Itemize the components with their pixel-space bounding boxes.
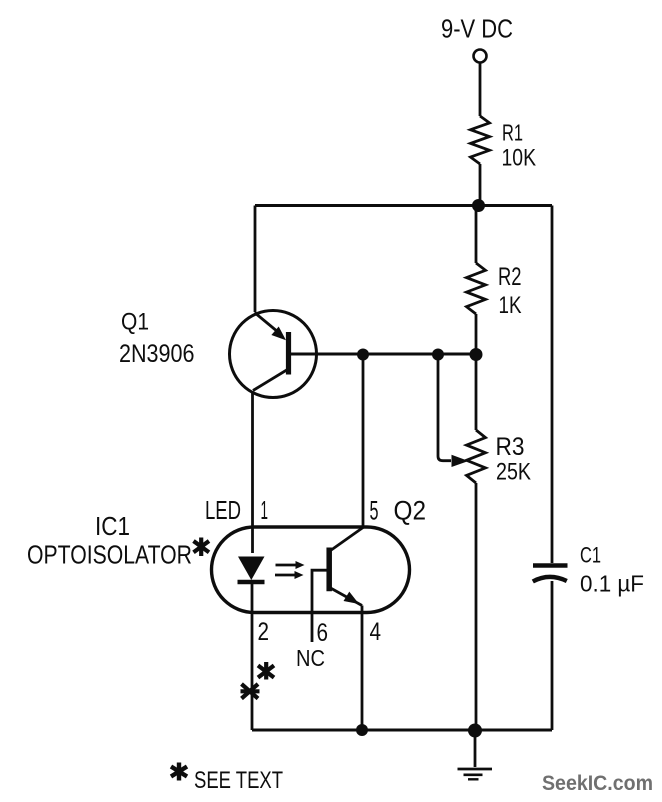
svg-text:Q2: Q2 xyxy=(394,496,427,526)
capacitor C1 xyxy=(533,566,568,731)
svg-text:SEE TEXT: SEE TEXT xyxy=(194,767,283,794)
asterisk see-text xyxy=(171,763,187,781)
svg-text:6: 6 xyxy=(317,619,329,647)
optoisolator IC1 body xyxy=(212,527,410,613)
svg-text:25K: 25K xyxy=(496,459,532,486)
svg-text:R1: R1 xyxy=(502,119,523,145)
wire Q1 base to R2/R3 node xyxy=(289,352,476,355)
wire pin5 riser xyxy=(362,354,365,527)
svg-text:1: 1 xyxy=(261,495,269,525)
wire Q1 collector to LED pin1 xyxy=(251,393,254,554)
node pin4-bottom junction xyxy=(356,724,368,736)
svg-text:SeekIC.com: SeekIC.com xyxy=(542,772,653,795)
svg-text:1K: 1K xyxy=(499,292,522,319)
resistor R1 xyxy=(471,116,490,164)
svg-text:5: 5 xyxy=(370,496,379,526)
svg-text:Q1: Q1 xyxy=(121,309,149,336)
svg-text:2N3906: 2N3906 xyxy=(119,340,195,368)
wire left vertical to Q1 emitter xyxy=(254,206,257,313)
LED diode xyxy=(238,557,265,731)
transistor Q1 xyxy=(230,311,317,398)
svg-text:NC: NC xyxy=(296,645,325,671)
wiper arrow R3 xyxy=(438,355,469,467)
wire top horizontal rail xyxy=(255,204,552,207)
wire R1 to top node xyxy=(479,164,482,206)
svg-text:2: 2 xyxy=(258,618,270,646)
light arrows xyxy=(275,561,305,579)
asterisk after OPTOISOLATOR xyxy=(194,538,210,557)
phototransistor Q2 xyxy=(329,528,363,731)
node base-pin5 junction xyxy=(357,349,369,361)
wire top node to R2 xyxy=(475,206,478,264)
svg-text:R3: R3 xyxy=(496,433,525,461)
svg-text:0.1 µF: 0.1 µF xyxy=(580,571,644,597)
svg-text:LED: LED xyxy=(205,495,241,525)
potentiometer R3 xyxy=(467,430,486,483)
svg-text:9-V DC: 9-V DC xyxy=(441,15,513,43)
wire bottom rail xyxy=(252,728,552,731)
wire C1 riser xyxy=(551,206,554,564)
node base-wiper junction xyxy=(432,349,444,361)
resistor R2 xyxy=(467,263,486,314)
pin 6 stub xyxy=(312,570,329,642)
node ground junction xyxy=(468,724,482,738)
svg-text:OPTOISOLATOR: OPTOISOLATOR xyxy=(27,540,192,570)
wire node to R3 xyxy=(475,354,478,430)
svg-text:C1: C1 xyxy=(580,543,601,568)
wire R2 to node xyxy=(475,314,478,354)
wire R3 to bottom node xyxy=(475,483,478,730)
ground xyxy=(458,730,493,779)
svg-text:4: 4 xyxy=(370,618,382,646)
wire terminal to R1 xyxy=(479,63,482,117)
node top junction xyxy=(472,199,485,212)
supply terminal xyxy=(474,50,487,63)
svg-text:R2: R2 xyxy=(498,263,522,291)
asterisk upper near pin2 xyxy=(258,662,274,680)
asterisk lower on wire xyxy=(241,684,260,699)
svg-text:IC1: IC1 xyxy=(95,511,130,541)
node base-R2R3 junction xyxy=(470,348,483,361)
svg-text:10K: 10K xyxy=(502,145,537,172)
